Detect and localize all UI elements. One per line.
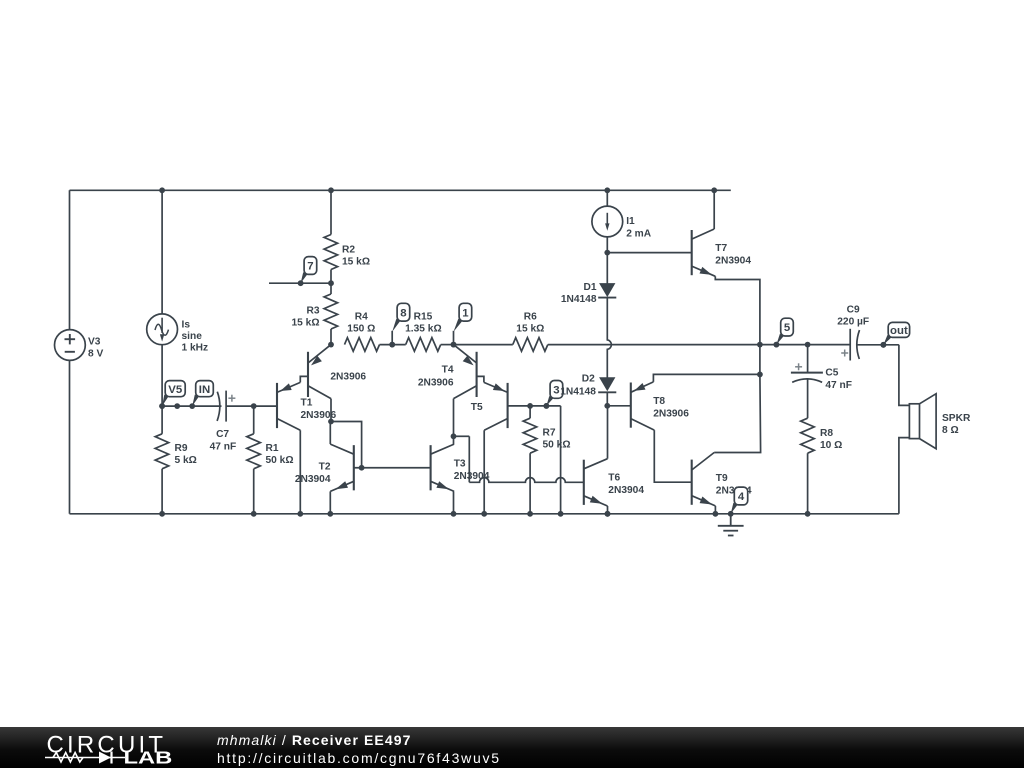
svg-text:4: 4: [738, 491, 745, 503]
svg-text:8: 8: [400, 307, 406, 319]
svg-text:8 Ω: 8 Ω: [942, 425, 959, 436]
svg-text:R7: R7: [543, 427, 556, 438]
wire C7 to T1 base: [226, 405, 277, 407]
svg-text:8 V: 8 V: [88, 348, 103, 359]
wire T8 collector to T9 base: [654, 430, 691, 482]
svg-text:15 kΩ: 15 kΩ: [342, 257, 370, 268]
transistor T1 2N3906: [276, 383, 278, 428]
svg-text:T8: T8: [653, 396, 665, 407]
wire T1 collector to rail: [299, 430, 301, 514]
wire T3/T4 node to T6 base with hops: [454, 435, 470, 437]
flag 5: [776, 334, 784, 345]
node junction T7 collector top rail: [711, 187, 717, 193]
speaker SPKR 8 Ω: [909, 404, 919, 439]
wire speaker bottom to rail: [899, 438, 910, 514]
plus sign C5: [795, 366, 802, 368]
node junction T9 emitter rail: [713, 511, 719, 517]
svg-text:T6: T6: [608, 473, 620, 484]
svg-text:T9: T9: [716, 473, 728, 484]
wire T6 emitter to rail: [607, 506, 609, 514]
wire T4 base step: [477, 376, 484, 382]
node junction R8 bottom rail: [805, 511, 811, 517]
node junction R9 bottom rail: [159, 511, 165, 517]
transistor T7 2N3904: [691, 230, 693, 275]
wire R15 to node 1: [441, 344, 454, 346]
wire T4 collector down: [453, 399, 455, 437]
node junction R7 top: [527, 403, 533, 409]
resistor R3: [330, 283, 332, 294]
node junction T8 emitter: [757, 372, 763, 378]
svg-text:T2: T2: [319, 461, 331, 472]
wire T8 base: [607, 405, 631, 407]
svg-text:50 kΩ: 50 kΩ: [266, 455, 294, 466]
node dot on input wire: [174, 403, 180, 409]
wire R6 to node 5 line: [548, 344, 850, 346]
wire node 7 stub: [269, 282, 331, 284]
wire R4 to R15: [380, 344, 406, 346]
svg-text:V3: V3: [88, 337, 101, 348]
node junction node 3: [544, 403, 550, 409]
wire D1 anode: [606, 253, 608, 284]
flag IN: [192, 395, 199, 407]
resistor R4: [345, 338, 380, 352]
wire emitter column down to T9 collector: [714, 374, 760, 452]
node junction mid wire node 5: [774, 342, 780, 348]
transistor T9 2N3904: [691, 460, 693, 505]
node junction out: [881, 342, 887, 348]
transistor T4 2N3906: [476, 352, 478, 397]
wire T3 collector to node: [453, 436, 455, 444]
svg-text:V5: V5: [168, 384, 183, 396]
node junction D2 T8 base T6 collector: [604, 403, 610, 409]
wire out to speaker top: [899, 345, 910, 406]
svg-text:47 nF: 47 nF: [825, 380, 852, 391]
wire emitter column to T8 emitter: [759, 345, 761, 375]
node junction T5 collector rail: [481, 511, 487, 517]
transistor T2 2N3904: [353, 445, 355, 490]
transistor T3 2N3904: [430, 445, 432, 490]
node junction R3 R4 emitter: [328, 342, 334, 348]
current source Is: [147, 314, 178, 345]
svg-text:out: out: [890, 325, 908, 337]
svg-text:2N3906: 2N3906: [330, 371, 366, 382]
wire C9 to out: [856, 344, 899, 346]
wire D2 cathode to junction: [606, 392, 608, 406]
flag 4: [731, 503, 738, 514]
capacitor C7: [217, 392, 220, 421]
svg-text:R2: R2: [342, 244, 355, 255]
svg-text:T3: T3: [454, 459, 466, 470]
resistor R1: [253, 406, 255, 434]
resistor R9: [161, 406, 163, 434]
transistor left diff pair 2N3906: [307, 352, 309, 397]
svg-text:47 nF: 47 nF: [210, 441, 237, 452]
wire I1 to top rail: [606, 190, 608, 206]
svg-text:T7: T7: [715, 243, 727, 254]
svg-text:2N3906: 2N3906: [653, 409, 689, 420]
resistor R7: [529, 406, 531, 418]
wire T5 base line: [508, 405, 561, 407]
wire T2 collector to mirror node: [329, 422, 331, 445]
svg-text:7: 7: [307, 261, 313, 273]
wire top supply rail: [70, 189, 731, 191]
wire T7 base: [607, 252, 691, 254]
voltage source V3: [55, 330, 86, 361]
node junction emitter column mid wire: [757, 342, 763, 348]
svg-text:1 kHz: 1 kHz: [182, 343, 209, 354]
svg-text:1N4148: 1N4148: [560, 386, 596, 397]
node junction C5 branch: [805, 342, 811, 348]
node junction D column rail: [605, 511, 611, 517]
node junction node 8: [389, 342, 395, 348]
transistor T5: [507, 383, 509, 428]
svg-text:D1: D1: [583, 282, 596, 293]
node junction base wire rail: [558, 511, 564, 517]
node junction T3 T4 collectors: [451, 433, 457, 439]
svg-text:2N3904: 2N3904: [608, 485, 644, 496]
wire V3 to bottom rail: [69, 360, 71, 513]
svg-text:5 kΩ: 5 kΩ: [175, 455, 197, 466]
flag 3: [546, 396, 553, 406]
wire mirror base line: [354, 467, 431, 469]
node junction R2 R3 node7: [328, 280, 334, 286]
node junction top rail / R2: [328, 187, 334, 193]
transistor T6 2N3904: [583, 460, 585, 505]
svg-text:T4: T4: [442, 365, 454, 376]
flag V5: [162, 395, 168, 407]
resistor R6: [513, 338, 548, 352]
plus sign C9: [841, 352, 848, 354]
node junction I1 T7 base: [604, 250, 610, 256]
svg-text:220 µF: 220 µF: [837, 317, 869, 328]
capacitor C9 220 µF: [849, 329, 851, 361]
node junction R1 bottom rail: [251, 511, 257, 517]
svg-text:1N4148: 1N4148: [561, 294, 597, 305]
resistor R15: [406, 338, 441, 352]
svg-text:SPKR: SPKR: [942, 413, 971, 424]
svg-text:R8: R8: [820, 428, 833, 439]
svg-text:IN: IN: [199, 384, 210, 396]
wire bottom rail: [70, 513, 899, 515]
svg-text:R1: R1: [266, 443, 279, 454]
node junction mirror input: [328, 419, 334, 425]
svg-text:50 kΩ: 50 kΩ: [543, 439, 571, 450]
wire T2 emitter to rail: [329, 491, 331, 513]
flag 8: [392, 319, 400, 332]
svg-text:C9: C9: [847, 305, 860, 316]
wire diff collector to mirror node: [330, 399, 332, 422]
svg-text:R4: R4: [355, 312, 368, 323]
svg-text:R6: R6: [524, 312, 537, 323]
svg-text:T1: T1: [301, 398, 313, 409]
wire T9 emitter to rail: [714, 506, 716, 514]
wire T6 collector up to D2 node: [607, 406, 609, 459]
svg-text:C7: C7: [216, 429, 229, 440]
current source I1: [592, 206, 623, 237]
svg-text:R15: R15: [414, 312, 433, 323]
wire node1 to R6: [454, 344, 513, 346]
svg-text:10 Ω: 10 Ω: [820, 440, 842, 451]
svg-text:Is: Is: [182, 320, 191, 331]
node junction T2 emitter rail: [327, 511, 333, 517]
resistor R8: [801, 418, 815, 453]
wire Is to input node: [161, 345, 163, 406]
svg-text:2N3904: 2N3904: [715, 256, 751, 267]
svg-text:LAB: LAB: [124, 748, 173, 768]
flag 1: [454, 319, 463, 332]
node junction base line: [359, 465, 365, 471]
svg-text:2 mA: 2 mA: [626, 228, 652, 239]
resistor R2: [330, 190, 332, 234]
svg-text:15 kΩ: 15 kΩ: [292, 317, 320, 328]
diode D1 1N4148: [599, 283, 615, 297]
wire T3 emitter to rail: [453, 491, 455, 513]
transistor T8 2N3906: [630, 383, 632, 428]
svg-text:T5: T5: [471, 402, 483, 413]
node junction top rail / Is: [159, 187, 165, 193]
svg-text:150 Ω: 150 Ω: [347, 324, 375, 335]
node junction R7 bottom rail: [527, 511, 533, 517]
flag out: [883, 335, 891, 345]
node junction R1 top: [251, 403, 257, 409]
wire T7 collector to top rail: [713, 190, 715, 229]
node junction T6 emitter rail: [605, 511, 611, 517]
wire left rail down to V3: [69, 190, 71, 329]
plus sign C7: [228, 397, 235, 399]
node junction T1 collector rail: [297, 511, 303, 517]
wire T5 collector to rail: [483, 430, 485, 514]
svg-text:2N3906: 2N3906: [418, 377, 454, 388]
wire D1 cathode with hop over mid wire: [607, 298, 611, 378]
wire mirror node to base line: [331, 422, 362, 468]
node input junction: [159, 403, 165, 409]
wire T5 base down: [560, 406, 562, 514]
CircuitLab logo: [0, 727, 200, 768]
svg-text:R9: R9: [175, 443, 188, 454]
svg-text:2N3904: 2N3904: [295, 474, 331, 485]
node junction T3 emitter rail: [451, 511, 457, 517]
svg-text:1: 1: [462, 307, 469, 319]
wire T7 emitter step down: [715, 276, 760, 344]
svg-text:D2: D2: [582, 373, 595, 384]
svg-text:15 kΩ: 15 kΩ: [516, 324, 544, 335]
wire Is to top rail: [161, 190, 163, 314]
svg-text:3: 3: [553, 385, 559, 397]
svg-text:1.35 kΩ: 1.35 kΩ: [405, 324, 442, 335]
svg-text:5: 5: [784, 322, 791, 334]
svg-text:C5: C5: [825, 368, 838, 379]
wire input net: [162, 405, 221, 407]
svg-text:R3: R3: [306, 305, 319, 316]
capacitor C5 47 nF: [807, 345, 809, 372]
wire I1 to D1: [606, 237, 608, 253]
node junction node 1: [451, 342, 457, 348]
node junction top rail / I1: [604, 187, 610, 193]
svg-text:I1: I1: [626, 216, 635, 227]
diode D2 1N4148: [599, 377, 615, 391]
flag 7: [301, 272, 308, 283]
ground symbol: [730, 514, 732, 526]
svg-text:sine: sine: [182, 331, 203, 342]
